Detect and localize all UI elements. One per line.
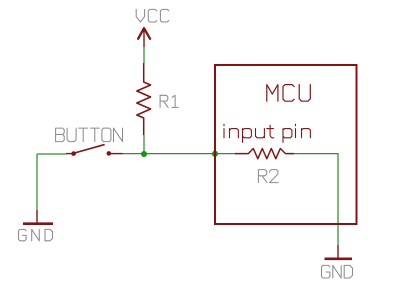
ground right xyxy=(325,245,353,259)
resistor R2 xyxy=(235,149,294,159)
wire xyxy=(143,47,145,63)
ground left xyxy=(23,210,53,224)
label R1 xyxy=(160,95,178,107)
label R2 xyxy=(258,170,278,183)
MCU box U1 xyxy=(215,65,357,224)
wire xyxy=(37,153,66,155)
wire xyxy=(143,135,145,154)
resistor R1 xyxy=(137,63,151,135)
junction node A xyxy=(141,151,147,157)
power symbol VCC xyxy=(138,28,150,47)
wire xyxy=(215,153,235,155)
label input pin xyxy=(224,124,310,142)
label GND right xyxy=(322,265,353,278)
wire xyxy=(122,153,215,155)
wire xyxy=(294,154,338,245)
label MCU xyxy=(267,85,311,102)
label VCC xyxy=(136,9,169,22)
junction node B xyxy=(212,151,218,157)
switch SW1 xyxy=(66,145,123,156)
label BUTTON xyxy=(56,128,123,142)
wire xyxy=(36,154,38,210)
label GND left xyxy=(19,229,53,240)
